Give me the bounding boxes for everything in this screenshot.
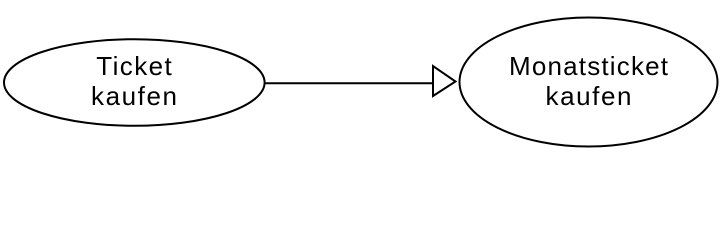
svg-text:kaufen: kaufen xyxy=(91,81,177,111)
use case "Ticket kaufen" ellipse xyxy=(4,39,265,126)
arrowhead (hollow triangle) xyxy=(433,66,456,96)
svg-text:Monatsticket: Monatsticket xyxy=(509,51,669,81)
svg-text:Ticket: Ticket xyxy=(96,51,172,81)
use case "Monatsticket kaufen" ellipse xyxy=(460,18,718,147)
svg-text:kaufen: kaufen xyxy=(546,81,632,111)
wire xyxy=(265,82,434,84)
